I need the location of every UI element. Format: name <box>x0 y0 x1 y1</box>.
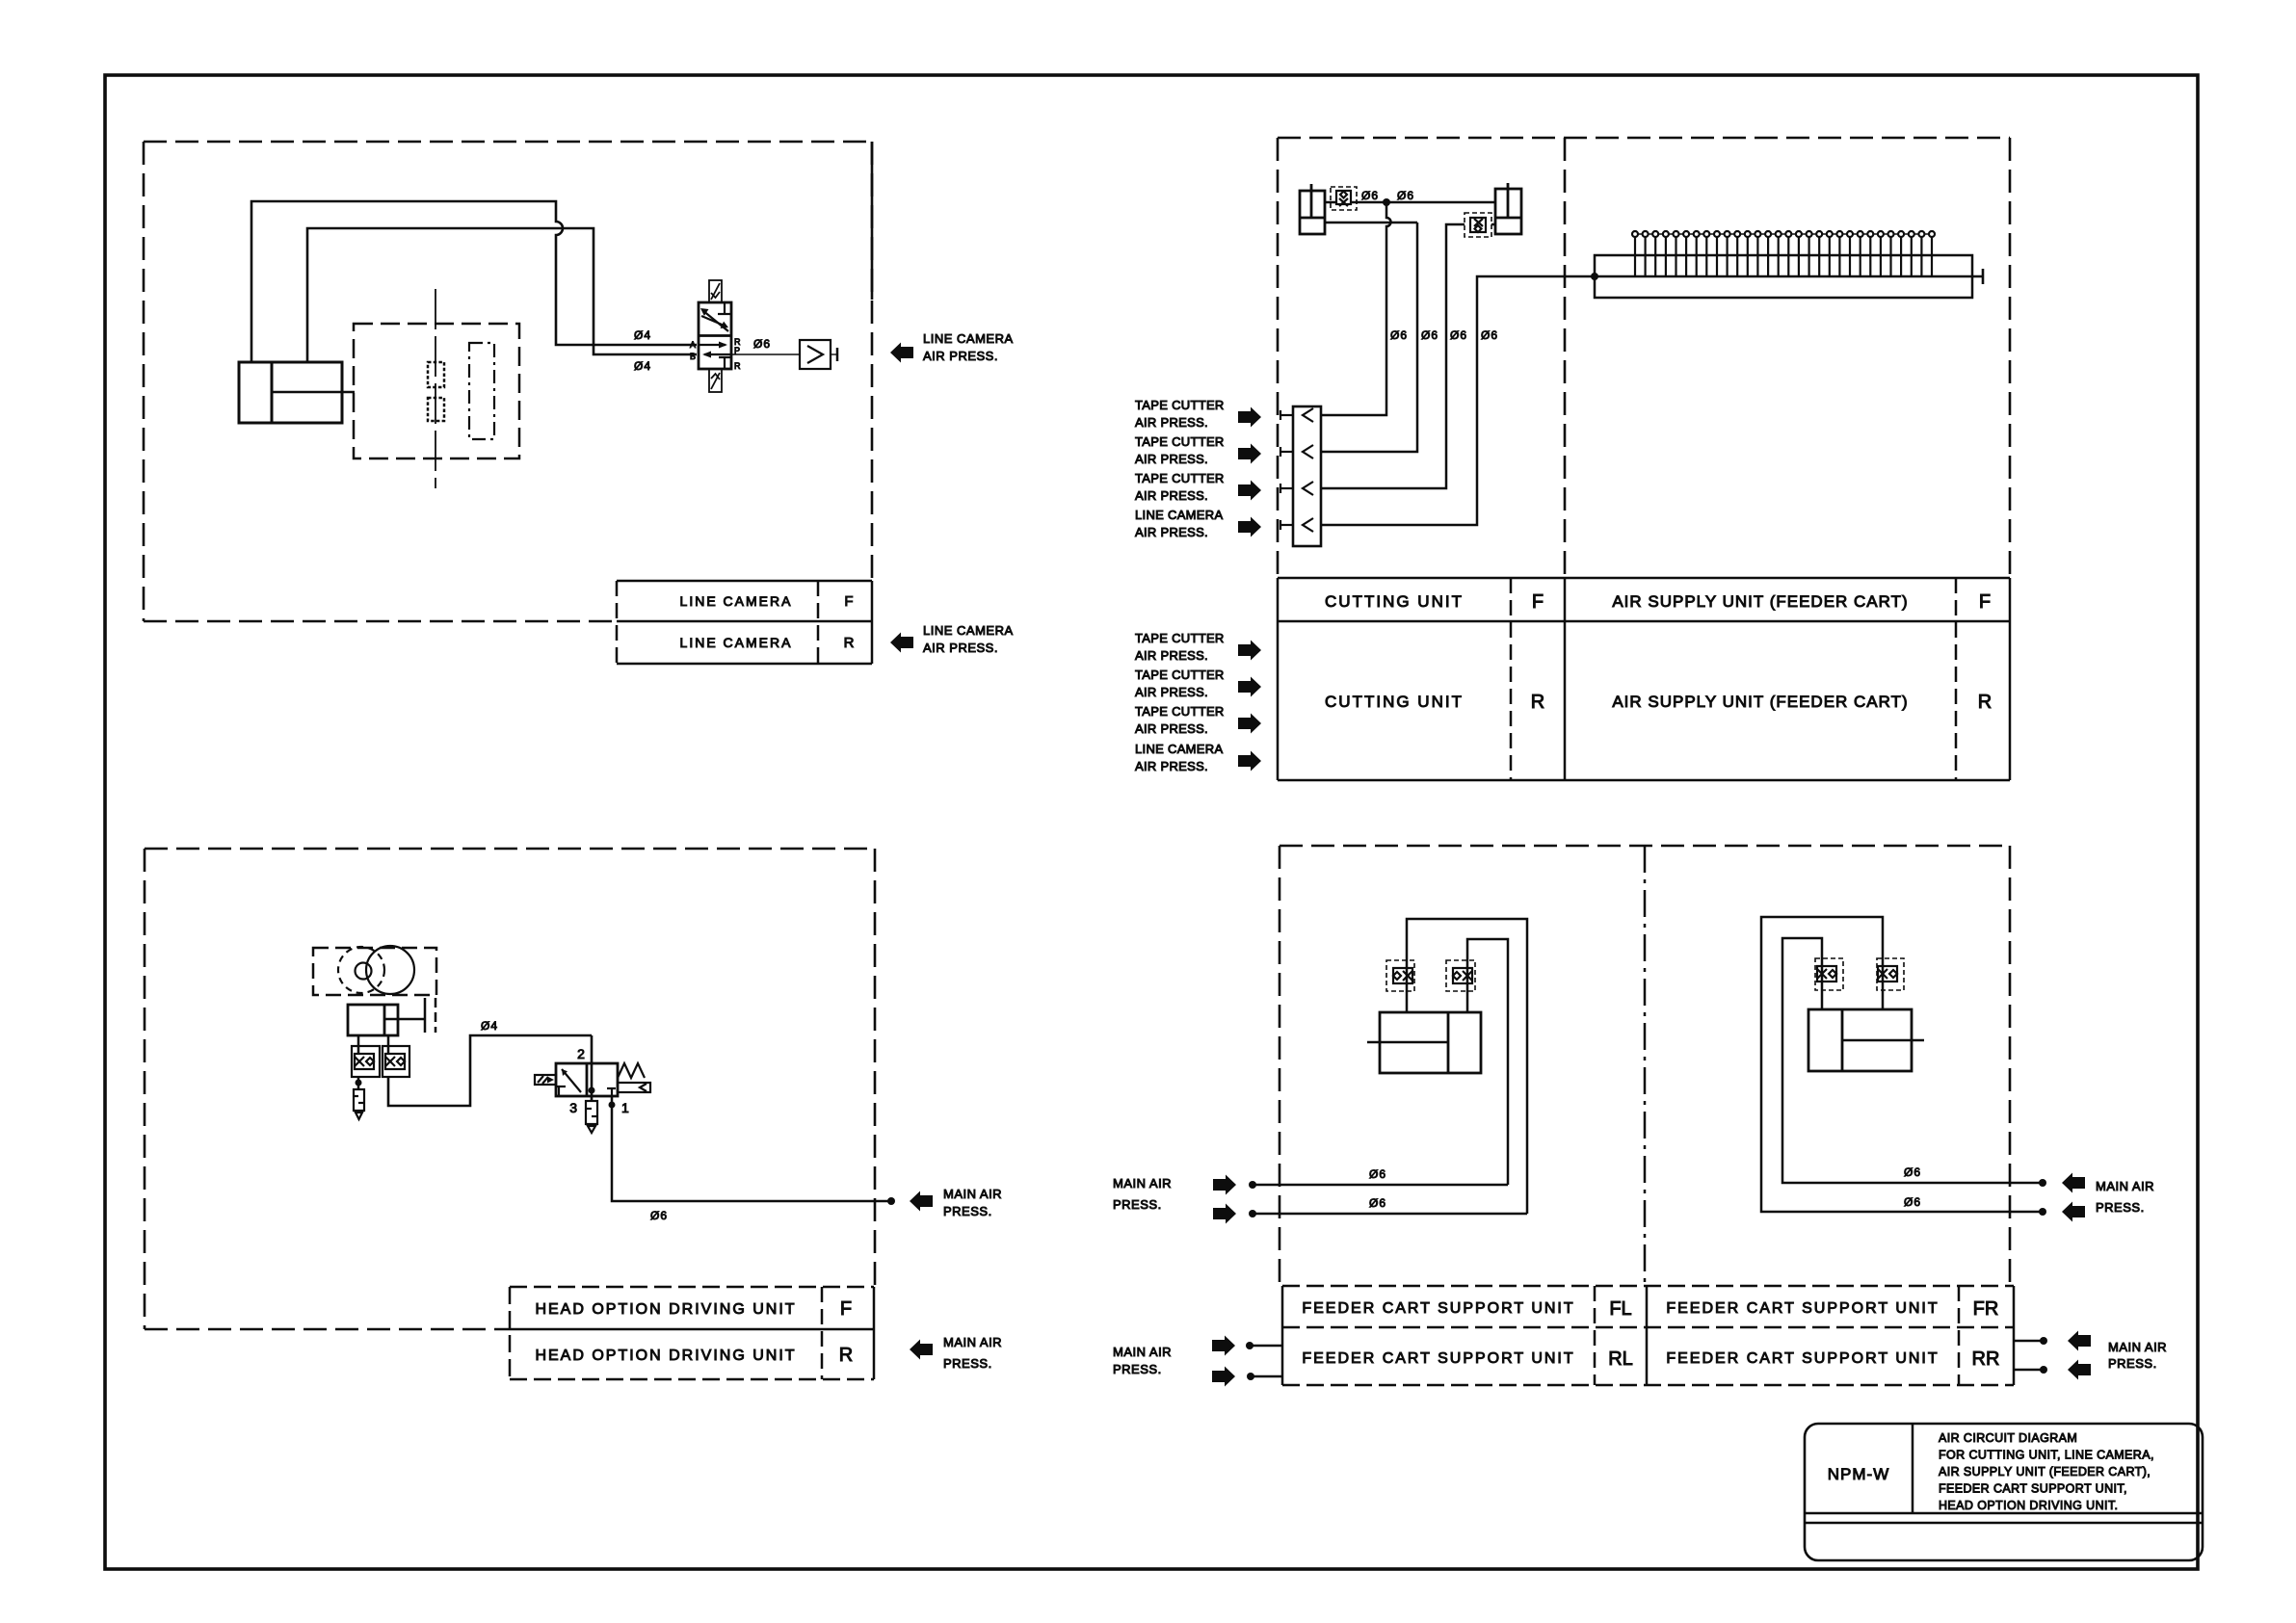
svg-text:FL: FL <box>1609 1298 1631 1320</box>
svg-text:TAPE CUTTER: TAPE CUTTER <box>1135 398 1225 412</box>
flow control F4 (right) <box>383 1046 409 1077</box>
svg-text:Ø6: Ø6 <box>1450 328 1467 342</box>
svg-text:TAPE CUTTER: TAPE CUTTER <box>1135 668 1225 682</box>
RL input stubs and dots <box>1250 1346 1282 1376</box>
connector ports <box>1280 408 1313 532</box>
svg-text:Ø6: Ø6 <box>1421 328 1438 342</box>
svg-text:PRESS.: PRESS. <box>943 1356 992 1371</box>
svg-text:F: F <box>844 593 853 610</box>
check valve CV1 <box>800 340 831 369</box>
wire Ø6: port1 down and right to boundary <box>612 1105 891 1201</box>
svg-text:CUTTING UNIT: CUTTING UNIT <box>1325 693 1464 711</box>
junction dot J2 (manifold feed) <box>1591 273 1598 280</box>
HEAD OPTION table <box>510 1287 874 1379</box>
svg-text:PRESS.: PRESS. <box>2096 1200 2145 1215</box>
rod bracket <box>425 998 435 1033</box>
gripper circle (dashed) <box>338 947 384 993</box>
svg-text:Ø6: Ø6 <box>1904 1165 1921 1179</box>
svg-text:FEEDER CART SUPPORT UNIT: FEEDER CART SUPPORT UNIT <box>1302 1300 1574 1317</box>
wire: cyl C2 bottom port run <box>1325 222 1417 224</box>
svg-text:MAIN AIR: MAIN AIR <box>943 1335 1002 1349</box>
svg-text:Ø6: Ø6 <box>1904 1195 1921 1209</box>
svg-text:Ø4: Ø4 <box>634 359 651 373</box>
mechanism dashed box <box>354 324 519 458</box>
unit boundary box (LINE CAMERA, dashed) <box>144 142 872 621</box>
tables CUTTING UNIT / AIR SUPPLY UNIT <box>1278 578 2010 780</box>
valve V2 right cell port 1 tee <box>607 1088 616 1096</box>
FL feed dots <box>1249 1181 1256 1189</box>
svg-text:LINE CAMERA: LINE CAMERA <box>923 623 1014 638</box>
valve V1 top pilot solenoid <box>709 280 722 302</box>
pilot box of V2 <box>618 1083 650 1092</box>
mechanism centerline <box>435 289 436 488</box>
mechanism pad 1 (dashed rect) <box>428 362 444 387</box>
FR wire D (right flow to lower feed) <box>1761 917 2043 1212</box>
feed line end bar <box>1982 269 1985 284</box>
svg-text:AIR PRESS.: AIR PRESS. <box>923 349 998 363</box>
svg-text:FEEDER CART SUPPORT UNIT,: FEEDER CART SUPPORT UNIT, <box>1939 1482 2127 1496</box>
junction dot J1 <box>1383 198 1390 206</box>
svg-text:Ø6: Ø6 <box>1397 189 1414 202</box>
FL arrows MAIN AIR PRESS <box>1213 1175 1236 1195</box>
gripper hub circle <box>356 963 372 980</box>
FL cylinder C5 <box>1367 1012 1481 1073</box>
arrow MAIN AIR PRESS (R row) <box>910 1340 933 1360</box>
svg-text:LINE CAMERA: LINE CAMERA <box>1135 742 1223 756</box>
svg-text:TAPE CUTTER: TAPE CUTTER <box>1135 434 1225 449</box>
FR arrows MAIN AIR PRESS <box>2062 1173 2085 1193</box>
RR output stubs and dots <box>2014 1341 2044 1370</box>
svg-text:HEAD OPTION DRIVING UNIT: HEAD OPTION DRIVING UNIT <box>535 1348 796 1364</box>
muffler M1 <box>354 1089 364 1119</box>
svg-text:Ø6: Ø6 <box>1369 1196 1386 1210</box>
title block dividers <box>1805 1424 2203 1523</box>
svg-text:R: R <box>734 361 741 371</box>
svg-text:AIR PRESS.: AIR PRESS. <box>1135 525 1208 539</box>
arrow: line camera air press (lower) <box>890 633 913 653</box>
svg-text:B: B <box>690 352 696 361</box>
arrow + label LINE CAMERA AIR PRESS. (R row) <box>1238 751 1261 772</box>
svg-text:Ø6: Ø6 <box>1361 189 1379 202</box>
svg-text:MAIN AIR: MAIN AIR <box>2108 1340 2167 1354</box>
mechanism pad 2 (dashed rect) <box>428 398 444 421</box>
svg-text:LINE CAMERA: LINE CAMERA <box>1135 508 1223 522</box>
svg-text:MAIN AIR: MAIN AIR <box>2096 1179 2154 1193</box>
manifold body (air supply unit) <box>1595 255 1972 298</box>
arrow + label TAPE CUTTER AIR PRESS. (R row) <box>1238 714 1261 734</box>
arrow + label TAPE CUTTER AIR PRESS. (R row) <box>1238 641 1261 661</box>
svg-text:FEEDER CART SUPPORT UNIT: FEEDER CART SUPPORT UNIT <box>1666 1350 1939 1367</box>
FL flow control F5 <box>1386 960 1414 991</box>
wire: flow F2 to cylinder C3 lower port <box>1491 223 1495 226</box>
central unit divider (dashed) <box>1564 138 1567 578</box>
svg-text:Ø4: Ø4 <box>481 1019 498 1033</box>
valve V1 bottom pilot solenoid <box>709 369 722 392</box>
svg-text:PRESS.: PRESS. <box>1113 1362 1162 1376</box>
svg-text:R: R <box>1978 692 1992 713</box>
svg-text:AIR PRESS.: AIR PRESS. <box>1135 759 1208 773</box>
svg-text:HEAD OPTION DRIVING UNIT.: HEAD OPTION DRIVING UNIT. <box>1939 1499 2118 1512</box>
junction dot under F3 <box>356 1080 362 1086</box>
muffler M2 <box>586 1101 597 1133</box>
title block outline <box>1805 1424 2203 1560</box>
FL wire A (left flow to lower feed) <box>1407 919 1527 1214</box>
manifold top rail <box>1632 233 1935 235</box>
wire: flow F1 to cylinder C3 (top run) <box>1351 201 1495 204</box>
svg-text:FOR CUTTING UNIT, LINE CAMERA,: FOR CUTTING UNIT, LINE CAMERA, <box>1939 1449 2154 1462</box>
wire 1: connector port1 up to J1 (with hop) <box>1321 202 1391 415</box>
valve V1 bottom cell arrows and exhaust <box>699 342 731 370</box>
svg-text:LINE CAMERA: LINE CAMERA <box>680 593 793 609</box>
solenoid of V2 <box>535 1075 556 1085</box>
wire A : cylinder head-side to valve port A (with hop) <box>251 201 697 362</box>
mechanism slot (dash-dot rect) <box>469 343 494 439</box>
svg-text:Ø6: Ø6 <box>1369 1167 1386 1181</box>
svg-text:F: F <box>1532 591 1544 613</box>
arrow + label TAPE CUTTER AIR PRESS. (F row) <box>1238 481 1261 501</box>
svg-text:FEEDER CART SUPPORT UNIT: FEEDER CART SUPPORT UNIT <box>1302 1350 1574 1367</box>
flow control F3 (left) <box>352 1046 380 1077</box>
arrow + label TAPE CUTTER AIR PRESS. (F row) <box>1238 407 1261 428</box>
cylinder C1 (line camera actuator) <box>239 362 355 423</box>
wire: F3 to muffler M1 <box>357 1077 360 1089</box>
valve V2 (3/2 head option valve) body <box>556 1063 618 1096</box>
cylinder C3 (tape cutter, right) <box>1495 183 1521 234</box>
flow control F1 <box>1331 187 1357 210</box>
port 1 stub and dot <box>611 1096 614 1105</box>
svg-text:Ø6: Ø6 <box>753 337 771 351</box>
arrow + label TAPE CUTTER AIR PRESS. (F row) <box>1238 444 1261 464</box>
svg-text:NPM-W: NPM-W <box>1828 1465 1889 1483</box>
central divider (dash-dot) <box>1644 846 1647 1286</box>
svg-text:R: R <box>839 1345 853 1366</box>
wire: cyl C2 top port to flow F1 <box>1325 201 1336 204</box>
svg-text:CUTTING UNIT: CUTTING UNIT <box>1325 592 1464 611</box>
svg-text:AIR PRESS.: AIR PRESS. <box>1135 685 1208 699</box>
svg-text:PRESS.: PRESS. <box>2108 1356 2157 1371</box>
svg-text:AIR SUPPLY UNIT (FEEDER CART),: AIR SUPPLY UNIT (FEEDER CART), <box>1939 1465 2151 1479</box>
svg-text:Ø6: Ø6 <box>1390 328 1408 342</box>
arrow: line camera air press (upper) <box>890 343 913 363</box>
FR cylinder C6 <box>1808 1009 1924 1071</box>
FL wire B (right flow to upper feed) <box>1467 939 1508 1185</box>
svg-text:R: R <box>844 635 855 651</box>
FR flow control F8 <box>1877 958 1904 990</box>
connector block (cutting unit inputs) <box>1293 406 1321 546</box>
FEEDER CART tables <box>1282 1286 2014 1385</box>
svg-text:3: 3 <box>569 1100 577 1115</box>
LINE CAMERA table <box>617 581 872 664</box>
svg-text:HEAD OPTION DRIVING UNIT: HEAD OPTION DRIVING UNIT <box>535 1301 796 1318</box>
svg-text:AIR PRESS.: AIR PRESS. <box>1135 721 1208 736</box>
wire B : cylinder rod-side to valve port B <box>307 228 697 362</box>
wire 3: connector port3 to flow F2 <box>1321 224 1465 488</box>
svg-text:AIR PRESS.: AIR PRESS. <box>1135 415 1208 430</box>
svg-text:A: A <box>690 340 696 350</box>
FR wire C (left flow to upper feed) <box>1782 938 2043 1183</box>
port 2 wire through valve to muffler M2 <box>591 1035 594 1101</box>
cylinder C4 (head option) <box>348 1005 425 1035</box>
svg-text:FEEDER CART SUPPORT UNIT: FEEDER CART SUPPORT UNIT <box>1666 1300 1939 1317</box>
svg-text:R: R <box>1531 692 1544 713</box>
svg-text:TAPE CUTTER: TAPE CUTTER <box>1135 471 1225 485</box>
wire Ø4: F4 down, right, up to valve V2 port 2 <box>388 1035 592 1106</box>
gripper mechanism dashed box <box>313 948 436 995</box>
svg-text:PRESS.: PRESS. <box>1113 1197 1162 1212</box>
unit boundary box (FEEDER CART SUPPORT, dashed) <box>1280 846 2010 1286</box>
valve V2 left cell: passage arrow and exhaust <box>557 1069 581 1096</box>
svg-text:MAIN AIR: MAIN AIR <box>943 1187 1002 1201</box>
svg-text:LINE CAMERA: LINE CAMERA <box>923 331 1014 346</box>
svg-text:AIR SUPPLY UNIT (FEEDER CART): AIR SUPPLY UNIT (FEEDER CART) <box>1612 592 1908 611</box>
svg-text:1: 1 <box>621 1100 629 1115</box>
svg-text:AIR PRESS.: AIR PRESS. <box>1135 648 1208 663</box>
FR flow control F7 <box>1815 958 1843 990</box>
svg-text:TAPE CUTTER: TAPE CUTTER <box>1135 704 1225 719</box>
svg-text:AIR PRESS.: AIR PRESS. <box>923 641 998 655</box>
svg-text:2: 2 <box>577 1046 585 1061</box>
wire 2: connector port2 to cyl C2 bottom <box>1321 223 1417 452</box>
RR arrows MAIN AIR PRESS <box>2068 1331 2091 1351</box>
FL feed line lower <box>1253 1213 1527 1216</box>
wire: valve P to check valve and stop <box>731 353 837 355</box>
valve V1 top cell crossover arrows <box>700 302 730 331</box>
svg-text:RL: RL <box>1608 1348 1633 1370</box>
arrow + label TAPE CUTTER AIR PRESS. (R row) <box>1238 677 1261 697</box>
svg-text:MAIN AIR: MAIN AIR <box>1113 1345 1172 1359</box>
svg-text:AIR SUPPLY UNIT (FEEDER CART): AIR SUPPLY UNIT (FEEDER CART) <box>1612 693 1908 711</box>
RL arrows MAIN AIR PRESS <box>1212 1336 1235 1356</box>
svg-text:AIR PRESS.: AIR PRESS. <box>1135 452 1208 466</box>
junction dot in valve <box>589 1087 595 1094</box>
svg-text:Ø6: Ø6 <box>650 1209 668 1222</box>
svg-text:F: F <box>1979 591 1991 613</box>
svg-text:AIR PRESS.: AIR PRESS. <box>1135 488 1208 503</box>
cylinder C2 (tape cutter, left) <box>1300 184 1325 234</box>
valve V1 (4/2 line camera valve) body <box>699 302 731 369</box>
FR feed dots <box>2039 1179 2046 1187</box>
FL flow control F6 <box>1446 960 1475 991</box>
svg-text:TAPE CUTTER: TAPE CUTTER <box>1135 631 1225 645</box>
unit boundary box (CUTTING UNIT / AIR SUPPLY, dashed) <box>1278 138 2010 578</box>
unit boundary box (HEAD OPTION, dashed) <box>145 849 875 1329</box>
manifold posts with circles <box>1632 231 1935 276</box>
svg-text:Ø4: Ø4 <box>634 328 651 342</box>
svg-text:Ø6: Ø6 <box>1481 328 1498 342</box>
arrow MAIN AIR PRESS (wire) <box>910 1191 933 1212</box>
svg-text:LINE CAMERA: LINE CAMERA <box>680 635 793 650</box>
gripper circle (solid) <box>366 946 414 994</box>
svg-text:F: F <box>840 1298 852 1320</box>
wire 4: connector port4 to manifold feed <box>1321 276 1983 525</box>
wire end dot <box>887 1197 895 1205</box>
spring of V2 <box>618 1063 645 1078</box>
cylinder ports down <box>358 1035 388 1054</box>
svg-text:AIR CIRCUIT DIAGRAM: AIR CIRCUIT DIAGRAM <box>1939 1431 2077 1445</box>
svg-text:MAIN AIR: MAIN AIR <box>1113 1176 1172 1191</box>
FL feed line upper <box>1253 1184 1508 1187</box>
unit boundary solid segment (top-right of LINE CAMERA box) <box>871 142 874 300</box>
svg-text:FR: FR <box>1973 1298 1999 1320</box>
arrow + label LINE CAMERA AIR PRESS. (F row) <box>1238 517 1261 537</box>
flow control F2 <box>1465 213 1491 237</box>
svg-text:RR: RR <box>1972 1348 2000 1370</box>
svg-text:PRESS.: PRESS. <box>943 1204 992 1218</box>
